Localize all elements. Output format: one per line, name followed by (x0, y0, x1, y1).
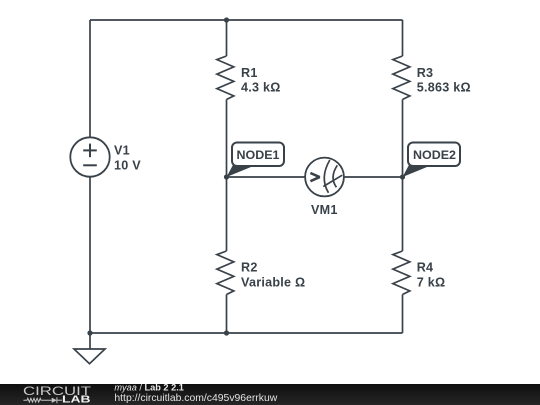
svg-text:Variable Ω: Variable Ω (241, 276, 305, 290)
svg-text:5.863 kΩ: 5.863 kΩ (417, 80, 471, 94)
svg-text:NODE1: NODE1 (237, 150, 281, 162)
svg-text:NODE2: NODE2 (413, 150, 456, 162)
svg-text:10 V: 10 V (114, 159, 141, 173)
svg-text:R3: R3 (417, 66, 434, 80)
svg-text:http://circuitlab.com/c495v96e: http://circuitlab.com/c495v96errkuw (114, 393, 277, 404)
svg-text:R4: R4 (417, 261, 434, 275)
svg-text:7 kΩ: 7 kΩ (417, 276, 446, 290)
svg-text:4.3 kΩ: 4.3 kΩ (241, 80, 281, 94)
svg-text:VM1: VM1 (311, 203, 338, 217)
svg-text:R2: R2 (241, 261, 258, 275)
svg-text:LAB: LAB (62, 394, 91, 405)
svg-text:R1: R1 (241, 66, 258, 80)
svg-text:myaa / Lab 2 2.1: myaa / Lab 2 2.1 (114, 382, 183, 392)
svg-text:V1: V1 (114, 143, 130, 157)
